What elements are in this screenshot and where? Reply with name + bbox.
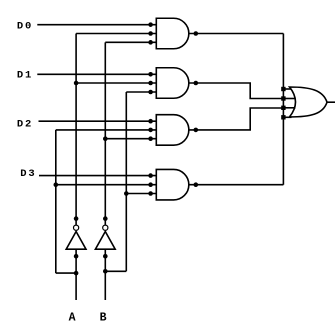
junction A branch xyxy=(74,271,79,276)
dot U4 pin 1 xyxy=(148,173,153,178)
wire A branch horizontal xyxy=(56,272,76,274)
dot U2 pin 1 xyxy=(148,72,153,77)
dot U3 pin 2 xyxy=(148,128,153,133)
label B xyxy=(100,311,107,324)
wire NOT-A to gate U1 input 2 xyxy=(76,33,156,35)
wire NOT-A vertical (node Abar) xyxy=(75,34,77,225)
dot U2 output xyxy=(194,81,199,86)
dot U4 pin 2 xyxy=(148,182,153,187)
junction Abar to U2 xyxy=(74,81,79,86)
wire D2 to gate U3 input 1 xyxy=(39,120,157,122)
inverter X1 bubble xyxy=(74,225,79,230)
and-gate U1 xyxy=(156,18,189,49)
svg-text:D1: D1 xyxy=(17,69,33,81)
label D2 xyxy=(17,119,33,131)
wire OR output F xyxy=(327,101,335,103)
svg-text:B: B xyxy=(100,311,107,324)
svg-text:A: A xyxy=(69,311,76,324)
inverter X2 triangle xyxy=(95,232,115,250)
wire B to gate U2 input 3 xyxy=(126,91,156,93)
label D1 xyxy=(17,69,33,81)
dot U2 pin 3 xyxy=(148,90,153,95)
dot U4 pin 3 xyxy=(148,191,153,196)
dot inverter X2 output xyxy=(103,216,108,221)
wire NOT-B vertical (node Bbar) xyxy=(104,42,106,225)
label D3 xyxy=(20,168,36,180)
or-gate U5 xyxy=(290,87,328,117)
junction A to U4 xyxy=(54,182,59,187)
dot inverter X2 input xyxy=(103,254,108,259)
dot U2 pin 2 xyxy=(148,81,153,86)
and-gate U2 xyxy=(156,68,189,99)
wire OR stub 4 xyxy=(283,116,291,118)
svg-text:D0: D0 xyxy=(17,21,33,33)
dot U1 pin 2 xyxy=(148,31,153,36)
dot OR input 2 xyxy=(281,96,285,100)
junction Bbar to U3 xyxy=(103,136,108,141)
dot U3 pin 3 xyxy=(148,136,153,141)
svg-text:D3: D3 xyxy=(20,168,36,180)
wire D0 to gate U1 input 1 xyxy=(37,24,156,26)
junction B branch xyxy=(103,269,108,274)
dot U1 pin 1 xyxy=(148,22,153,27)
wire gate U1 output to OR bus xyxy=(189,33,284,35)
and-gate U4 xyxy=(156,169,189,200)
inverter X1 triangle xyxy=(66,232,86,250)
dot OR input 1 xyxy=(281,87,285,91)
dot U4 output xyxy=(194,182,199,187)
wire gate U3 output step xyxy=(189,108,284,130)
wire D1 to gate U2 input 1 xyxy=(37,73,156,75)
dot inverter X1 output xyxy=(74,216,79,221)
inverter X2 bubble xyxy=(103,225,108,230)
wire A vertical (node A) xyxy=(55,130,57,273)
wire B vertical (node B) xyxy=(125,92,127,271)
svg-text:D2: D2 xyxy=(17,119,33,131)
label A xyxy=(69,311,76,324)
label D0 xyxy=(17,21,33,33)
wire inverter X1 input from A xyxy=(75,249,77,300)
dot U1 pin 3 xyxy=(148,40,153,45)
wire OR stub 3 xyxy=(283,107,295,109)
wire gate U4 output to OR bus xyxy=(189,184,284,186)
wire OR stub 2 xyxy=(283,98,295,100)
wire B to gate U4 input 3 xyxy=(126,193,156,195)
junction B to U4 xyxy=(124,191,129,196)
dot U3 output xyxy=(194,128,199,133)
dot inverter X1 input xyxy=(74,254,79,259)
wire OR input bus vertical xyxy=(282,34,284,185)
wire NOT-B to gate U3 input 3 xyxy=(105,138,156,140)
wire A to gate U4 input 2 xyxy=(56,184,157,186)
wire D3 to gate U4 input 1 xyxy=(39,175,156,177)
dot OR input 3 xyxy=(281,106,285,110)
wire A to gate U3 input 2 xyxy=(56,129,157,131)
wire B branch horizontal xyxy=(105,270,126,272)
wire NOT-B to gate U1 input 3 xyxy=(105,41,156,43)
wire inverter X2 input from B xyxy=(104,249,106,300)
wire NOT-A to gate U2 input 2 xyxy=(76,82,156,84)
wire OR stub 1 xyxy=(283,88,291,90)
and-gate U3 xyxy=(156,115,189,145)
dot OR input 4 xyxy=(281,115,285,119)
dot U3 pin 1 xyxy=(148,119,153,124)
wire gate U2 output step xyxy=(189,83,284,99)
dot U1 output xyxy=(194,31,199,36)
